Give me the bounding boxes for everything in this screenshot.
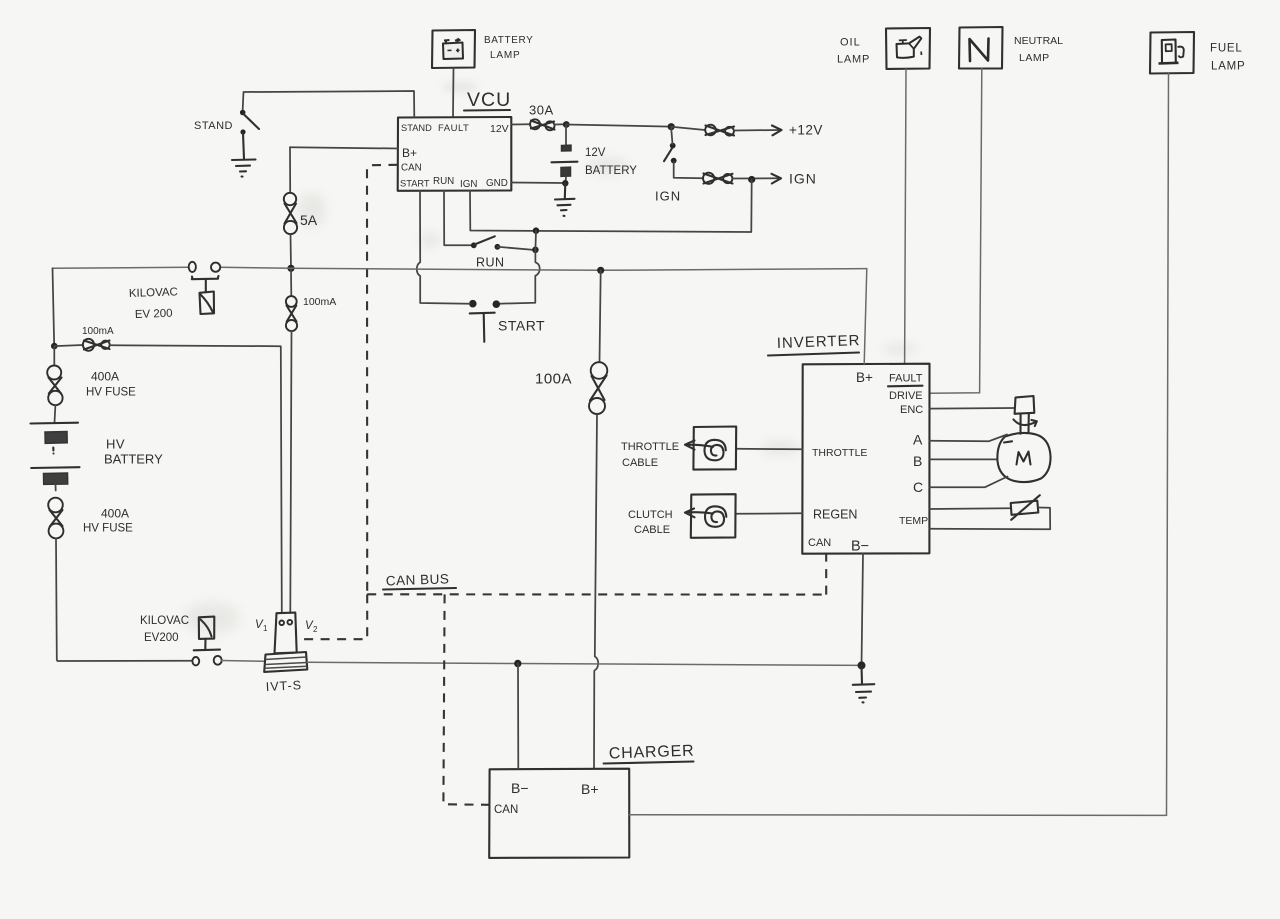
wire neutral lamp to inverter DRIVE	[930, 69, 982, 394]
svg-text:THROTTLE: THROTTLE	[621, 441, 679, 453]
svg-text:100mA: 100mA	[82, 326, 114, 337]
node +12V / IGN switch top	[668, 123, 675, 130]
wire TEMP upper	[930, 507, 1010, 510]
svg-text:5A: 5A	[300, 212, 318, 228]
wire START pushbutton to VCU START pin with hop	[417, 191, 470, 304]
wire charger B- up to rail node	[517, 664, 519, 769]
wire RUN switch to vertical	[497, 247, 532, 250]
wire VCU 12V to 30A fuse	[511, 123, 529, 125]
clutch cable spiral	[705, 506, 726, 527]
svg-text:FAULT: FAULT	[438, 123, 469, 134]
wire left vertical to 400A fuse 1	[53, 346, 55, 364]
svg-text:LAMP: LAMP	[490, 50, 520, 61]
INVERTER title underline	[768, 353, 859, 356]
stand switch S1	[240, 110, 259, 135]
ground below stand switch	[232, 133, 256, 177]
svg-text:CABLE: CABLE	[622, 457, 658, 469]
svg-text:B+: B+	[581, 781, 599, 797]
svg-text:IVT-S: IVT-S	[265, 678, 302, 694]
wire 100A line upper	[600, 270, 601, 362]
contactor K1 actuator and coil	[192, 276, 219, 314]
svg-text:BATTERY: BATTERY	[104, 452, 163, 467]
CAN BUS label underline	[383, 588, 456, 590]
clutch cable arrow	[685, 509, 713, 518]
svg-text:CLUTCH: CLUTCH	[628, 509, 673, 521]
throttle cable box	[693, 427, 736, 470]
ground symbol main	[853, 665, 875, 702]
CAN bus dashed horizontal	[367, 593, 826, 595]
svg-text:B−: B−	[851, 539, 869, 555]
svg-text:IGN: IGN	[460, 179, 477, 190]
fuse F-400A-2	[48, 498, 63, 539]
fuse F-100A	[589, 362, 607, 414]
neutral lamp box	[959, 27, 1003, 69]
wire IGN node down and left to VCU IGN pin	[470, 180, 752, 233]
svg-text:NEUTRAL: NEUTRAL	[1014, 35, 1063, 47]
svg-text:GND: GND	[486, 178, 508, 189]
node IGN feed	[748, 176, 755, 183]
clutch cable box	[691, 494, 736, 538]
shunt IVT-S	[264, 613, 307, 672]
wire phase A	[930, 435, 1008, 442]
wire 100A fuse down to charger B+ with hop over lower rail	[594, 414, 598, 769]
upper rail wire	[53, 267, 867, 270]
motor M1	[997, 433, 1050, 482]
oil lamp icon (oil can)	[897, 37, 922, 58]
svg-text:EV200: EV200	[144, 632, 179, 644]
node battery minus	[562, 180, 568, 186]
charger box U3	[489, 769, 629, 858]
fuse F-100mA-2	[286, 269, 297, 332]
svg-text:CAN: CAN	[494, 804, 518, 816]
svg-text:INVERTER: INVERTER	[777, 332, 861, 352]
svg-text:IGN: IGN	[655, 189, 681, 204]
wire inverter B- down to ground node	[862, 554, 864, 666]
svg-text:CAN BUS: CAN BUS	[386, 571, 450, 588]
node rail-5A	[287, 265, 294, 272]
svg-text:12V: 12V	[490, 123, 509, 135]
node run/start feed on IGN line	[533, 227, 540, 234]
svg-text:REGEN: REGEN	[813, 508, 857, 522]
svg-text:STAND: STAND	[401, 123, 432, 133]
wire left vertical top (rail corner down)	[53, 268, 55, 346]
arrow IGN	[772, 174, 782, 184]
wire + arrow to +12V	[734, 129, 780, 132]
node 12V-batt-plus	[563, 121, 570, 128]
wire VCU B+ to 5A fuse line	[290, 147, 398, 148]
svg-text:400A: 400A	[101, 507, 129, 521]
wire 5A fuse to rail node	[290, 234, 293, 269]
VCU box U1	[398, 117, 512, 191]
svg-text:BATTERY: BATTERY	[484, 35, 533, 46]
svg-text:EV 200: EV 200	[135, 308, 173, 321]
dashed CAN from VCU	[367, 165, 398, 595]
wire TEMP lower loop	[930, 508, 1051, 530]
wire 100mA-1 fuse to V1 sense	[110, 345, 282, 613]
contactor K1 contacts (KILOVAC EV200)	[189, 262, 221, 272]
svg-text:100mA: 100mA	[303, 296, 336, 308]
svg-text:CHARGER: CHARGER	[609, 743, 695, 763]
wire rail to inverter B+	[864, 269, 867, 364]
wire V2 sense down to IVT-S	[290, 331, 291, 613]
svg-text:400A: 400A	[91, 370, 119, 384]
wire phase C	[930, 477, 1008, 488]
svg-text:2: 2	[313, 625, 318, 634]
node run-start vertical top	[532, 247, 539, 254]
wire node to +12V fuse	[671, 127, 705, 130]
wire battery to 400A fuse 2	[55, 484, 57, 490]
fuse F-+12V	[705, 125, 734, 136]
wire VCU RUN pin down to RUN switch	[444, 191, 471, 246]
svg-text:C: C	[913, 479, 923, 495]
svg-text:FUEL: FUEL	[1210, 43, 1243, 55]
svg-text:LAMP: LAMP	[1019, 52, 1050, 64]
FAULT underline	[888, 385, 923, 388]
svg-text:RUN: RUN	[433, 176, 454, 187]
fuel lamp icon (fuel pump)	[1159, 40, 1184, 64]
dashed inverter CAN drop	[825, 554, 827, 595]
svg-text:+12V: +12V	[789, 123, 823, 138]
battery lamp box	[432, 30, 475, 68]
oil lamp box	[886, 28, 930, 69]
fuel lamp box	[1150, 32, 1194, 74]
throttle cable spiral	[705, 440, 726, 461]
pushbutton START S4	[469, 300, 500, 342]
svg-text:ENC: ENC	[900, 404, 923, 416]
thermistor RT1	[1011, 495, 1040, 520]
svg-text:TEMP: TEMP	[899, 515, 928, 527]
svg-text:LAMP: LAMP	[837, 54, 870, 66]
svg-text:HV FUSE: HV FUSE	[86, 387, 136, 399]
wire stand switch to VCU top	[243, 91, 415, 117]
svg-text:STAND: STAND	[194, 120, 233, 132]
svg-text:CAN: CAN	[808, 537, 831, 549]
wire ENC pin to encoder	[930, 407, 1015, 410]
svg-text:START: START	[498, 318, 545, 334]
HV battery BT2	[31, 423, 80, 485]
VCU title underline	[464, 109, 510, 112]
wire IGN switch to IGN fuse	[674, 162, 703, 178]
battery lamp icon	[443, 39, 463, 60]
inverter box U2	[802, 364, 929, 554]
fuse F-100mA-1	[54, 339, 109, 351]
svg-text:12V: 12V	[585, 147, 606, 159]
wire fuel lamp down to charger line	[1167, 74, 1169, 816]
svg-text:B+: B+	[856, 370, 873, 385]
encoder rotation arrow	[1014, 420, 1037, 427]
wire VCU GND to battery minus node	[511, 182, 565, 185]
encoder E1	[1015, 396, 1035, 434]
svg-text:B+: B+	[402, 146, 417, 160]
svg-text:30A: 30A	[529, 103, 554, 118]
wire 30A fuse to +12V node	[555, 123, 567, 125]
wire phase B	[930, 458, 997, 460]
wire left vertical down to lower rail	[56, 538, 192, 661]
svg-text:100A: 100A	[535, 371, 572, 388]
wire vertical node up to IGN line	[534, 231, 537, 250]
switch IGN S2	[664, 128, 677, 164]
fuse F-400A-1	[47, 366, 62, 406]
svg-text:A: A	[913, 432, 923, 448]
svg-text:OIL: OIL	[840, 37, 861, 49]
svg-text:THROTTLE: THROTTLE	[812, 447, 867, 459]
svg-text:LAMP: LAMP	[1211, 61, 1246, 73]
wire REGEN to clutch cable	[736, 512, 803, 515]
svg-text:CAN: CAN	[401, 163, 422, 174]
svg-text:FAULT: FAULT	[889, 373, 923, 385]
node main ground	[858, 661, 866, 669]
wire fuse to IGN arrow	[733, 177, 781, 179]
12V battery BT1	[552, 125, 578, 183]
svg-text:IGN: IGN	[789, 171, 817, 187]
wire lower rail (kilovac to IVT-S)	[222, 660, 266, 663]
fuse F-30A	[530, 119, 555, 130]
svg-text:KILOVAC: KILOVAC	[140, 615, 189, 627]
CHARGER title underline	[604, 762, 694, 764]
svg-text:CABLE: CABLE	[634, 524, 670, 536]
node rail-100A	[597, 267, 604, 274]
svg-text:VCU: VCU	[467, 89, 511, 111]
svg-text:1: 1	[263, 624, 268, 633]
node charger B- tap	[514, 660, 521, 667]
motor letter M	[1017, 452, 1031, 465]
dashed charger CAN drop	[443, 594, 489, 804]
svg-text:RUN: RUN	[476, 256, 505, 270]
fuse F-5A	[284, 193, 297, 234]
svg-text:B: B	[913, 453, 922, 469]
wire battery lamp to VCU top	[452, 68, 455, 117]
wire oil lamp to inverter FAULT	[905, 69, 906, 364]
node 100mA-1 tap	[51, 343, 58, 350]
fuse F-IGN	[703, 173, 733, 184]
wire fuse to battery	[54, 405, 57, 423]
dashed stub to IVT-S V2	[297, 594, 368, 639]
svg-text:HV: HV	[106, 437, 125, 452]
wire THROTTLE to throttle cable	[736, 448, 802, 450]
ground below 12V battery	[555, 183, 575, 216]
svg-text:START: START	[400, 179, 430, 189]
throttle cable arrow	[685, 441, 713, 450]
contactor K2 actuator and coil	[194, 617, 220, 651]
svg-text:BATTERY: BATTERY	[585, 165, 637, 177]
wire vertical down with hop over rail	[499, 250, 540, 304]
svg-text:HV FUSE: HV FUSE	[83, 523, 133, 535]
switch RUN S3	[471, 236, 500, 249]
svg-text:B−: B−	[511, 780, 529, 796]
neutral lamp letter N	[970, 39, 989, 62]
wire lower rail (IVT-S to ground node)	[307, 662, 861, 665]
wire charger AC side to fuel lamp line	[629, 814, 1166, 817]
contactor K2 contacts (KILOVAC EV200)	[192, 656, 221, 666]
wire node to IGN switch node	[566, 125, 671, 127]
wire 5A line down from B+	[289, 147, 291, 192]
svg-text:KILOVAC: KILOVAC	[129, 286, 178, 300]
svg-text:DRIVE: DRIVE	[889, 390, 923, 402]
